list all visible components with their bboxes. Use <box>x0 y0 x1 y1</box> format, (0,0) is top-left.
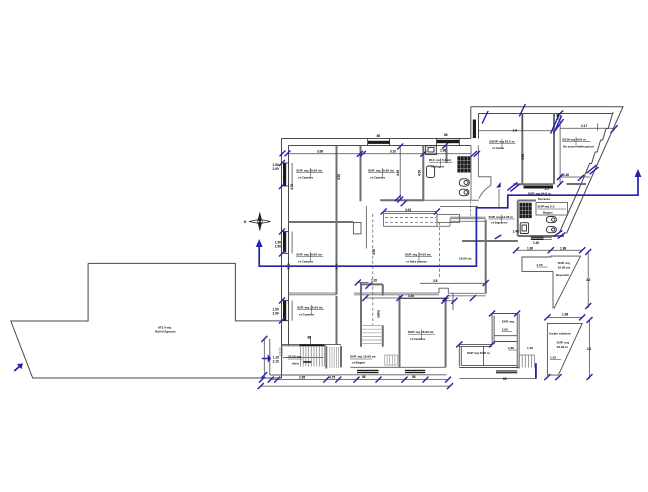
compass star <box>244 212 271 232</box>
ingresso bottom wall <box>462 240 518 242</box>
svg-text:1.43: 1.43 <box>550 356 556 360</box>
sink bath1 <box>426 146 437 155</box>
window upper-right bottom wall <box>524 186 554 189</box>
svg-text:locale solatore: locale solatore <box>549 332 571 336</box>
left wall outer <box>281 139 283 379</box>
locale right dim <box>589 320 591 379</box>
svg-text:SUP. mq 16.00 mt: SUP. mq 16.00 mt <box>296 253 322 257</box>
svg-text:SUP. mq 16.00 mt: SUP. mq 16.00 mt <box>297 306 323 310</box>
dashed vertical corridor <box>470 201 472 218</box>
deposito top dim <box>516 249 582 251</box>
svg-text:SUP. mq 16.00 mt: SUP. mq 16.00 mt <box>408 330 434 334</box>
dim ext x=453 <box>452 293 454 311</box>
upper-right block left wall <box>471 107 479 139</box>
svg-text:st Camera: st Camera <box>298 260 313 264</box>
svg-text:SUP. mq: SUP. mq <box>557 341 569 345</box>
upper-right block top inner <box>479 113 614 115</box>
curved door flare <box>479 185 491 198</box>
room label: camera 2 <box>368 168 395 180</box>
window bath2 bottom <box>531 237 544 240</box>
svg-text:1.90: 1.90 <box>527 246 533 250</box>
svg-text:SUP. mq 16.00 mt: SUP. mq 16.00 mt <box>296 169 322 173</box>
interior stair treads <box>361 326 383 344</box>
ingresso left wall face <box>477 146 479 177</box>
room label: camera 3 <box>296 252 323 264</box>
ticks left vert dim <box>261 336 267 378</box>
svg-text:57.00 mq: 57.00 mq <box>288 355 301 359</box>
left wall window dim exts <box>291 163 293 321</box>
ticks cantina top dim <box>362 295 476 301</box>
room label: soggiorno <box>405 252 471 264</box>
svg-text:st Cantina: st Cantina <box>410 337 425 341</box>
main block exterior walls <box>282 106 624 378</box>
corridor south wall <box>450 217 486 221</box>
svg-text:4.50: 4.50 <box>372 249 376 255</box>
svg-text:Bagno: Bagno <box>543 211 553 215</box>
svg-text:86: 86 <box>444 133 448 137</box>
svg-text:4.50: 4.50 <box>290 184 294 190</box>
shower bath1 (dark) <box>457 156 470 172</box>
dashed guideline vertical <box>439 222 441 277</box>
wardrobe dim <box>384 211 437 213</box>
bidet bath2 <box>546 227 556 233</box>
tick top wall window2 <box>442 143 448 149</box>
ticks on slant <box>587 165 599 174</box>
small stair at corridor <box>385 355 398 365</box>
big blue arrow hall <box>14 363 23 371</box>
L-block inner divider <box>483 346 485 365</box>
slanted right wall outer <box>567 106 624 233</box>
small stair near vestibule <box>330 347 339 368</box>
svg-text:3.40: 3.40 <box>408 294 414 298</box>
svg-text:3.10: 3.10 <box>390 149 396 153</box>
ticks upper-right bottom <box>507 182 519 191</box>
label L-block 1 <box>502 320 514 332</box>
label L-block 2 <box>467 346 533 355</box>
window left wall 3 <box>283 301 286 321</box>
shower bath2 (dark) <box>519 203 531 218</box>
upper-right dim line <box>479 130 556 132</box>
svg-text:4.50: 4.50 <box>521 154 525 160</box>
terrace sill lines <box>544 237 552 239</box>
wall x=336.5 lower row <box>336 296 338 345</box>
upper-right vert dim <box>559 114 561 185</box>
small dim corridor <box>358 282 369 284</box>
bottom dim chain 1 <box>270 379 448 381</box>
svg-text:4.50: 4.50 <box>396 170 400 176</box>
label room lower mid <box>350 355 376 365</box>
svg-text:SUP. mq 16.00 mt: SUP. mq 16.00 mt <box>350 355 376 359</box>
blue dim ticks <box>258 104 618 389</box>
wall overlay on section line <box>289 264 337 270</box>
bottom dim chain 2 <box>261 385 450 387</box>
svg-text:86: 86 <box>362 375 366 379</box>
svg-text:1.98: 1.98 <box>440 149 446 153</box>
upper-right block top outer <box>471 106 624 108</box>
bidet bath1 <box>459 189 469 196</box>
bath1 bottom wall <box>424 199 479 201</box>
ticks left wall windows <box>279 160 285 324</box>
svg-text:3.04: 3.04 <box>405 208 411 212</box>
windows in top wall <box>283 120 476 321</box>
blue door arrow <box>496 182 501 188</box>
label terrazzo <box>528 192 551 202</box>
hall/vestibule handrail <box>283 356 324 358</box>
svg-text:2.17: 2.17 <box>581 124 587 128</box>
ticks locale dims <box>544 314 592 380</box>
vestibule right room wall <box>340 346 342 367</box>
upper-right dim 2.17 <box>560 127 614 129</box>
room2 vertical dim <box>399 147 401 200</box>
svg-text:st Camera: st Camera <box>299 313 314 317</box>
corridor mid line <box>440 205 478 207</box>
ticks wardrobe <box>381 209 440 215</box>
deposito outline <box>522 256 581 308</box>
wc bath2 <box>546 217 556 223</box>
top wall inner <box>289 145 471 147</box>
svg-text:salita: salita <box>377 310 381 318</box>
stair enclosure left <box>360 282 362 347</box>
dimension lines (black thin) <box>261 114 614 387</box>
svg-text:Deposito: Deposito <box>556 273 569 277</box>
room label: hall <box>155 326 176 334</box>
top wall outer <box>282 138 471 140</box>
svg-text:1.40: 1.40 <box>533 241 539 245</box>
section arrowhead left <box>256 239 263 247</box>
svg-text:W.C. mq 5.0 mt: W.C. mq 5.0 mt <box>429 158 451 162</box>
window upper-right left wall <box>473 120 476 139</box>
vestibule sill hatch <box>300 344 325 346</box>
vestibule bottom <box>270 374 340 376</box>
white midlines over windows <box>357 238 543 373</box>
ticks upper-right top <box>482 104 525 124</box>
locale solatore outline <box>547 323 582 375</box>
thin interior lines <box>270 223 484 376</box>
camera4 dim ext <box>310 336 312 344</box>
tick room2 right <box>420 151 426 157</box>
living room right wall <box>485 220 487 294</box>
svg-text:SUP. mq 16.00 mt: SUP. mq 16.00 mt <box>368 169 394 173</box>
horizontal wall y=294.5 left <box>289 293 337 295</box>
sink bath2 <box>520 223 528 234</box>
svg-text:1.40: 1.40 <box>563 173 569 177</box>
window end ticks top wall <box>282 139 460 321</box>
room2/bath divider <box>422 146 424 202</box>
window bottom 2 <box>405 370 425 373</box>
svg-text:86: 86 <box>377 134 381 138</box>
L-block bottom dim <box>459 378 536 380</box>
wc bath1 <box>459 179 469 186</box>
entrance wide stair <box>301 346 325 366</box>
svg-text:SUP mq SUP m: SUP mq SUP m <box>467 351 490 355</box>
living notch <box>439 288 448 293</box>
window top wall 2 <box>437 140 460 143</box>
svg-text:1.98: 1.98 <box>560 246 566 250</box>
door direction line <box>498 189 500 208</box>
room2 bottom wall <box>380 199 423 201</box>
svg-text:4.50: 4.50 <box>418 170 422 176</box>
left vert dim hall entry <box>263 339 265 375</box>
svg-text:16.00 mt.: 16.00 mt. <box>558 266 571 270</box>
hall d'Agnano outline <box>11 263 282 378</box>
svg-text:st Ingresso: st Ingresso <box>491 221 508 225</box>
svg-text:2.2: 2.2 <box>545 187 550 191</box>
horizontal wall y=294.5 right <box>354 293 486 296</box>
svg-text:st Bagno: st Bagno <box>431 165 444 169</box>
slanted right wall inner with notches <box>580 112 613 186</box>
blue tick near locale <box>535 363 537 379</box>
svg-text:2.90: 2.90 <box>273 167 279 171</box>
svg-text:SUP. mq 14.05 m: SUP. mq 14.05 m <box>489 215 514 219</box>
room label: camera 4 <box>297 305 324 317</box>
svg-text:1.8: 1.8 <box>513 128 518 132</box>
bath1 right wall <box>470 146 472 201</box>
window white midlines <box>300 186 554 374</box>
svg-text:SUP mq 5.0: SUP mq 5.0 <box>538 205 555 209</box>
dashed guideline vertical 2 <box>372 214 374 325</box>
ticks mid top dim <box>357 151 366 157</box>
svg-text:1.40: 1.40 <box>513 230 519 234</box>
wall y=284.6 <box>361 283 383 285</box>
svg-text:86: 86 <box>412 375 416 379</box>
deposito right dim <box>587 252 589 308</box>
svg-text:st Sala pranzo: st Sala pranzo <box>406 260 427 264</box>
svg-text:Terrazzo: Terrazzo <box>538 197 551 201</box>
tick far right top <box>611 125 618 133</box>
ticks vertical dim upper-right <box>557 111 563 188</box>
ticks L-block <box>441 298 520 348</box>
vestibule left wall hatch <box>279 348 283 356</box>
cantina right wall <box>445 299 447 367</box>
room label: cantina <box>408 330 435 342</box>
ticks bottom chain <box>259 377 451 383</box>
svg-text:2.90: 2.90 <box>273 312 279 316</box>
dim ext line x=366.3 <box>365 206 367 249</box>
svg-text:2.60: 2.60 <box>502 328 508 332</box>
ticks dim 1.40 <box>557 174 584 181</box>
bathtub bath1 <box>427 166 435 177</box>
ticks top-left corner <box>280 151 291 157</box>
svg-text:86: 86 <box>308 336 312 340</box>
cantina top dim line <box>365 297 449 299</box>
left wall inner <box>288 146 290 346</box>
dim 1.40 room6 <box>560 176 590 178</box>
ticks room2 vert dim <box>397 144 403 203</box>
svg-text:16.00 m: 16.00 m <box>557 345 569 349</box>
room label: camera 1 <box>296 168 323 180</box>
svg-text:2.10: 2.10 <box>273 360 279 364</box>
svg-text:1.70: 1.70 <box>536 263 542 267</box>
dim texts <box>273 124 592 381</box>
bath2 fixtures <box>519 203 531 218</box>
big blue arrow entrance <box>262 356 270 362</box>
door spur top <box>478 177 491 186</box>
bottom wall cantina outer <box>339 374 446 376</box>
L-block exterior stair <box>519 355 535 368</box>
svg-text:1.45: 1.45 <box>556 114 560 120</box>
locale top dim <box>547 316 582 318</box>
bath2 left wall <box>517 201 519 237</box>
upper-right rooms divider vertical <box>521 114 523 185</box>
svg-text:1.20: 1.20 <box>371 279 377 283</box>
stair handrail dark bar <box>303 361 311 363</box>
wardrobe dashed band <box>384 213 437 226</box>
room label: bagno 2 boxed <box>536 203 568 216</box>
svg-text:2.95: 2.95 <box>299 376 305 380</box>
bottom wall cantina inner <box>351 366 446 368</box>
svg-text:Atrio: Atrio <box>292 362 299 366</box>
cabinet outline right of wardrobe <box>437 215 460 223</box>
window L-block bottom <box>496 370 517 373</box>
L-block (lower right) walls <box>459 314 519 369</box>
bath divider wall <box>446 146 448 164</box>
living dim line <box>420 282 484 284</box>
bath2 top wall <box>518 200 536 202</box>
room label: bagno 1 <box>429 158 453 169</box>
slanted inner wall lower <box>559 186 580 234</box>
svg-text:65: 65 <box>503 377 507 381</box>
svg-text:st Came: st Came <box>492 146 504 150</box>
bath1 fixtures <box>426 146 470 196</box>
window left wall 2 <box>283 232 286 253</box>
room label: ingresso <box>489 215 515 225</box>
vestibule top sill <box>281 345 326 347</box>
window top wall 1 <box>368 141 390 144</box>
mid horizontal wall y=222 <box>289 221 354 223</box>
blue section line A-A <box>259 176 638 266</box>
interior partition walls (gray) <box>289 114 587 369</box>
vestibule left wall <box>281 346 283 370</box>
svg-text:4.2: 4.2 <box>586 278 591 282</box>
ticks at left wall top dim <box>471 151 480 157</box>
svg-text:1.20: 1.20 <box>527 346 533 350</box>
svg-text:3.06: 3.06 <box>317 149 323 153</box>
section arrowhead right <box>635 169 642 177</box>
corridor step <box>437 219 450 227</box>
svg-text:SUP. mq: SUP. mq <box>502 320 514 324</box>
ticks stair corridor <box>355 195 407 289</box>
svg-text:4.50: 4.50 <box>337 174 341 180</box>
ticks deposito dims <box>513 247 591 309</box>
label atrio <box>288 355 302 366</box>
svg-text:Se zona rettificazioni: Se zona rettificazioni <box>563 145 594 149</box>
door jamb rect <box>353 223 361 234</box>
window bottom 1 <box>357 370 378 373</box>
camera4 bottom line <box>282 344 342 346</box>
long vertical wall x=336.5 <box>336 146 338 295</box>
svg-text:st Camera: st Camera <box>298 176 313 180</box>
rotated dim texts <box>290 114 560 318</box>
label locale solatore <box>549 332 571 360</box>
svg-text:SUP. mq 24.00 mt: SUP. mq 24.00 mt <box>405 253 431 257</box>
small dim under living <box>444 300 455 302</box>
upper-right room6 horizontal ext <box>479 114 598 132</box>
svg-text:SS.M mq 64.8 m: SS.M mq 64.8 m <box>562 138 586 142</box>
room2 left wall <box>360 146 362 202</box>
svg-text:st Bagno: st Bagno <box>352 361 365 365</box>
big tick cluster upper-right <box>551 116 564 134</box>
vestibule right wall <box>325 346 327 368</box>
svg-text:2.90: 2.90 <box>275 245 281 249</box>
cantina left wall <box>399 296 401 368</box>
svg-text:SUP. mq: SUP. mq <box>558 261 570 265</box>
svg-text:SUP. mq 64.8 m: SUP. mq 64.8 m <box>528 192 551 196</box>
svg-text:16.00 mt: 16.00 mt <box>459 256 471 260</box>
room label: upper-right 2 <box>562 137 594 149</box>
svg-text:Hall d'Agnano: Hall d'Agnano <box>155 330 176 334</box>
svg-text:4.75: 4.75 <box>329 376 335 380</box>
svg-text:1.98: 1.98 <box>562 313 568 317</box>
top rooms dim line <box>289 153 471 155</box>
svg-text:st Camera: st Camera <box>370 176 385 180</box>
svg-text:1.80: 1.80 <box>508 346 514 350</box>
ticks ingresso <box>483 235 502 286</box>
cantina top line <box>400 298 446 300</box>
window left wall 1 <box>283 163 286 186</box>
bath2 bottom wall <box>518 235 564 237</box>
upper-right bottom wall <box>513 183 586 185</box>
svg-text:4.2: 4.2 <box>587 347 592 351</box>
ticks near bath2 <box>554 230 566 238</box>
stair enclosure right <box>382 284 384 346</box>
upper-right second vertical <box>553 114 555 185</box>
vestibule outer left <box>269 339 271 375</box>
room label: upper-right 1 <box>489 139 515 150</box>
svg-text:3.8: 3.8 <box>433 279 438 283</box>
label deposito <box>536 261 571 277</box>
